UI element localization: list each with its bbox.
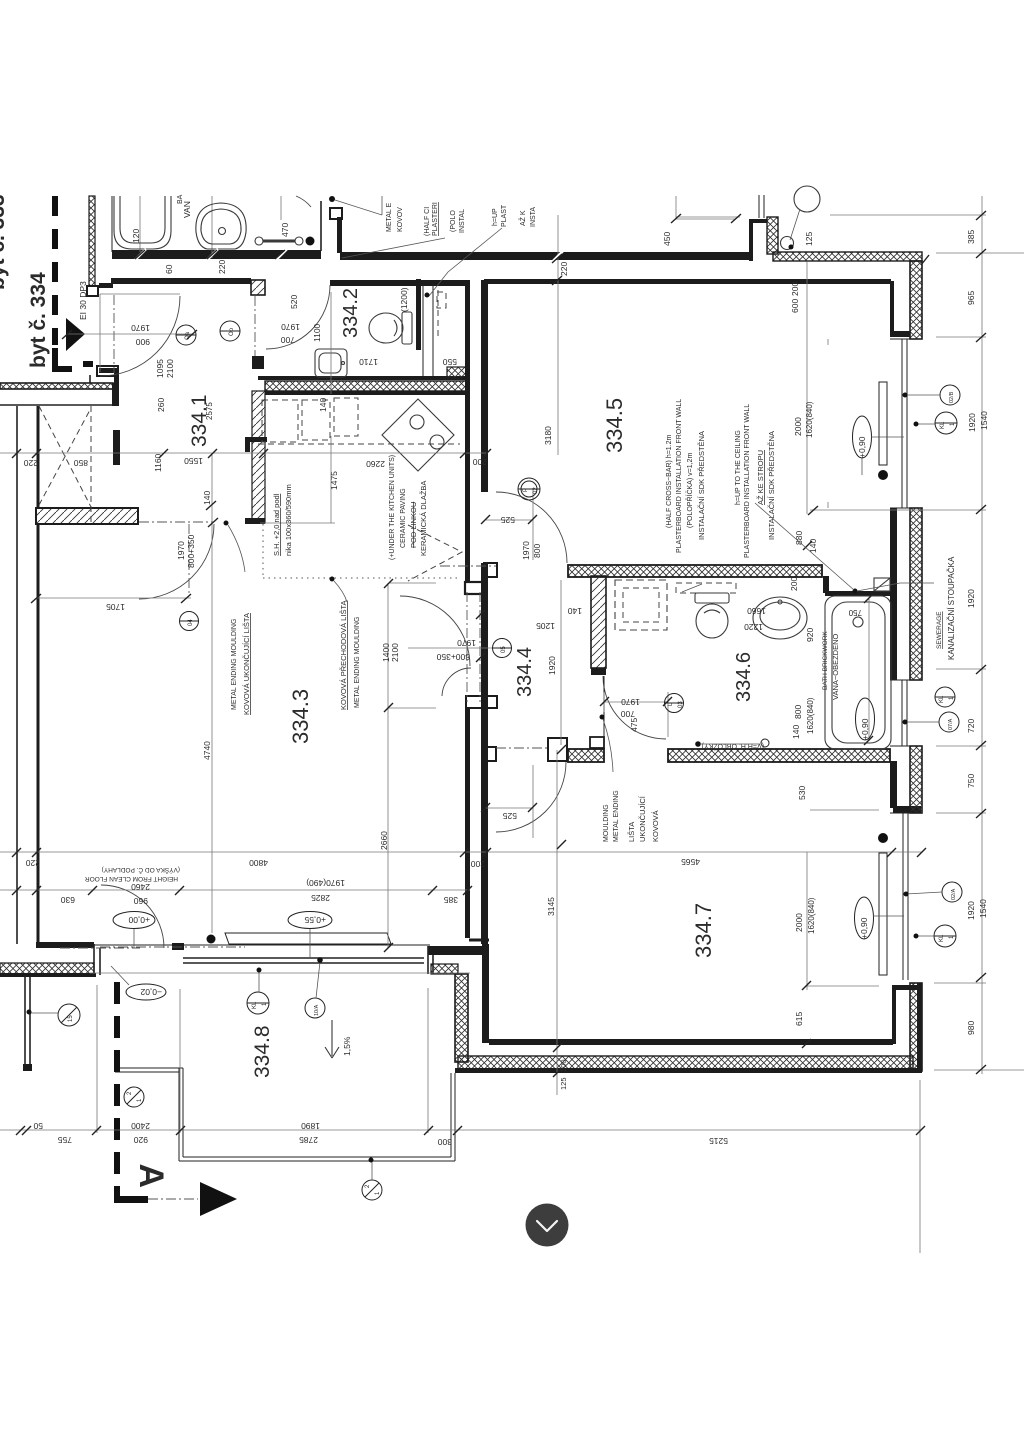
- svg-text:60: 60: [164, 264, 174, 274]
- dim chain: right vertical: [981, 196, 983, 1074]
- symbol circle 07/A bath window: [903, 712, 960, 732]
- wall: 334.2 bottom wall: [258, 376, 466, 380]
- svg-text:AŽ KE STROPU: AŽ KE STROPU: [756, 450, 765, 505]
- shaft: 334.2 instal shaft lines: [423, 284, 446, 376]
- dim line: 1705: [36, 597, 191, 599]
- fixture: kitchen fridge dashed: [302, 400, 330, 440]
- wall: balcony door frame piece: [172, 943, 184, 950]
- wall: rooms top wall 334.1 segment: [99, 278, 251, 288]
- fixture: top-right small circle fixture: [781, 237, 794, 250]
- svg-text:INSTA: INSTA: [530, 207, 537, 227]
- node: dot at moulding hall: [600, 715, 614, 773]
- svg-text:800: 800: [793, 705, 803, 719]
- svg-text:2100: 2100: [165, 359, 175, 378]
- svg-text:800: 800: [532, 544, 542, 558]
- wall: east exterior hatched band bottom corner: [910, 983, 922, 1071]
- svg-text:334.2: 334.2: [340, 288, 362, 338]
- fixture: kitchen unit dashed left: [262, 400, 298, 442]
- svg-text:1970(490): 1970(490): [306, 878, 345, 888]
- symbol circle KL/1 bath window: [935, 687, 955, 707]
- svg-text:+0,55: +0,55: [304, 915, 326, 925]
- dim line: y852 chain: [0, 851, 922, 853]
- wall: top-right exterior hatched wall horizontal: [773, 252, 922, 261]
- section line A thin dash-dot: [148, 1198, 198, 1200]
- dim ticks group 1 (top walls and chains): [135, 211, 986, 1074]
- wall: east exterior inner face 334.5/334.6: [890, 508, 897, 680]
- svg-text:615: 615: [794, 1012, 804, 1026]
- svg-text:02/B: 02/B: [949, 391, 955, 403]
- symbol circle KL/1 334.7 window: [914, 925, 957, 947]
- dim ext: hall right dims: [560, 580, 562, 745]
- svg-text:720: 720: [966, 719, 976, 733]
- fixture: 334.5 radiator: [879, 382, 887, 465]
- svg-text:1220: 1220: [744, 622, 763, 632]
- wall: top room left boundary lower part: [87, 286, 118, 376]
- svg-text:AŽ K: AŽ K: [518, 210, 527, 226]
- svg-text:1095: 1095: [155, 359, 165, 378]
- svg-text:POD LINKOU: POD LINKOU: [409, 502, 418, 548]
- svg-text:200: 200: [789, 577, 799, 591]
- door arc: 334.1 entrance from corridor: [100, 294, 180, 376]
- wall: top room bottom wall left segment: [112, 250, 321, 259]
- door arc: bathroom door: [603, 676, 666, 739]
- dim ext: x180 balcony: [179, 989, 181, 1133]
- svg-text:200: 200: [559, 1059, 568, 1072]
- wall: kitchen niche left wall hatched: [245, 391, 267, 524]
- svg-text:200: 200: [473, 457, 487, 467]
- svg-text:KERAMICKÁ DLAŽBA: KERAMICKÁ DLAŽBA: [419, 481, 428, 556]
- svg-text:125: 125: [559, 1077, 568, 1090]
- dim texts rotated group: [78, 194, 989, 1056]
- wall: 334.7 south wall inner face: [489, 1039, 893, 1045]
- svg-text:1710: 1710: [359, 357, 378, 367]
- section letter A: [132, 1163, 170, 1188]
- svg-text:334.7: 334.7: [691, 903, 716, 958]
- svg-text:(+UNDER THE KITCHEN UNITS): (+UNDER THE KITCHEN UNITS): [389, 455, 396, 560]
- svg-text:METAL ENDING MOULDING: METAL ENDING MOULDING: [231, 619, 238, 710]
- svg-text:PLASTERBOARD INSTALLATION FRON: PLASTERBOARD INSTALLATION FRONT WALL: [676, 399, 683, 553]
- wall: top-right exterior hatched wall vertical: [767, 217, 778, 254]
- fixture: bathtub: [825, 596, 891, 749]
- svg-text:2260: 2260: [366, 459, 385, 469]
- wall: top room inner left face: [111, 196, 113, 252]
- svg-text:2100: 2100: [390, 643, 400, 662]
- dim stub y983: [934, 982, 986, 984]
- node: dot near step: [329, 196, 335, 202]
- wall: east exterior hatched band middle: [910, 508, 922, 680]
- svg-text:1160: 1160: [153, 453, 163, 472]
- door leaf: staircase door black bar: [113, 430, 120, 465]
- label: byt c. 333 partial top left: [0, 194, 9, 290]
- fixture: bathroom sink: [753, 597, 807, 639]
- wall: bottom-left exterior hatched band: [0, 963, 96, 977]
- dim line: 900 door: [67, 333, 192, 335]
- fixture: towel rail top room: [255, 237, 303, 245]
- svg-text:220: 220: [217, 260, 227, 274]
- svg-text:KOVOVÁ PŘECHODOVÁ LIŠTA: KOVOVÁ PŘECHODOVÁ LIŠTA: [339, 601, 348, 710]
- svg-text:220: 220: [26, 858, 40, 868]
- dim ext: x558 334.5: [557, 215, 559, 455]
- svg-text:750: 750: [848, 608, 862, 617]
- node: dot at moulding 334.3 entry: [224, 521, 246, 573]
- svg-text:334.8: 334.8: [251, 1025, 274, 1078]
- svg-text:−0,02: −0,02: [140, 987, 162, 997]
- dim stub y253: [936, 252, 1024, 254]
- svg-text:1205: 1205: [536, 621, 555, 631]
- wall: corridor wall west line upper: [465, 280, 470, 582]
- symbol circle L/03 bathroom door: [664, 694, 684, 713]
- symbol circle 05: [492, 639, 512, 658]
- wall: corridor wall west line lower: [465, 708, 470, 938]
- svg-text:KANALIZAČNÍ STOUPAČKA: KANALIZAČNÍ STOUPAČKA: [947, 556, 956, 660]
- svg-text:880: 880: [794, 531, 804, 545]
- dim ext: x807: [806, 262, 808, 514]
- wall: 334.7 west wall: [482, 944, 489, 1043]
- entrance arrow byt 334: [66, 318, 85, 351]
- svg-text:3180: 3180: [543, 426, 553, 445]
- wall: door pier hatched between 334.1 and 334.2: [251, 280, 265, 295]
- wall: bathroom 334.6 south hatched wall right segment: [668, 749, 890, 762]
- svg-text:600: 600: [790, 299, 800, 313]
- svg-text:h=UP TO THE CEILING: h=UP TO THE CEILING: [735, 430, 742, 505]
- fixture: bathroom washing machine dashed: [615, 580, 667, 630]
- svg-text:+0,90: +0,90: [857, 436, 867, 458]
- svg-text:200: 200: [471, 859, 485, 869]
- window: balcony sliding track double line: [183, 958, 424, 963]
- svg-text:(V=H.H. OBLOŽKY): (V=H.H. OBLOŽKY): [702, 742, 764, 751]
- symbol: top-right circle partial: [790, 186, 820, 240]
- leader: plasterboard note diagonal: [755, 503, 854, 590]
- svg-text:PLAST: PLAST: [501, 204, 508, 227]
- svg-text:(POLO: (POLO: [450, 210, 457, 232]
- svg-text:HEIGHT FROM CLEAN FLOOR: HEIGHT FROM CLEAN FLOOR: [85, 875, 178, 882]
- dim line: 615 334.7: [807, 852, 879, 990]
- symbol circle 10/A balcony: [305, 957, 325, 1018]
- svg-text:(POLOPŘÍČKA) v=1,2m: (POLOPŘÍČKA) v=1,2m: [685, 453, 694, 528]
- svg-text:450: 450: [662, 232, 672, 246]
- node: dot v.h.h. oblozky: [695, 739, 769, 747]
- wall: east exterior hatched band top: [910, 261, 922, 339]
- fixture: bathroom shelf dashed: [676, 583, 736, 593]
- svg-text:07/A: 07/A: [948, 718, 954, 730]
- dim ext: x428 balcony: [427, 988, 429, 1133]
- svg-text:755: 755: [58, 1135, 72, 1145]
- svg-text:750: 750: [966, 774, 976, 788]
- svg-text:LIŠTA: LIŠTA: [627, 822, 636, 842]
- fixture: kitchen counter dashed front: [258, 443, 460, 445]
- symbol circle 0a on door dim: [176, 325, 196, 345]
- svg-text:byt č. 333: byt č. 333: [0, 194, 9, 290]
- svg-text:385: 385: [444, 895, 458, 905]
- svg-text:700: 700: [621, 709, 635, 719]
- dim line: 450 segment: [676, 218, 736, 220]
- svg-text:4800: 4800: [249, 858, 268, 868]
- wall: shaft hatched piece: [447, 367, 466, 378]
- symbol circle 2/1 balcony edge: [362, 1158, 382, 1201]
- section line A corner dash: [114, 1196, 148, 1203]
- svg-text:KL: KL: [939, 695, 945, 703]
- svg-text:1920: 1920: [966, 589, 976, 608]
- door arc: balcony side door: [101, 885, 164, 948]
- white notch ticks over top wall: [135, 249, 563, 262]
- svg-text:UKONČUJÍCÍ: UKONČUJÍCÍ: [638, 795, 647, 842]
- svg-text:1475: 1475: [329, 471, 339, 490]
- window: top-right stub window lines: [759, 195, 764, 218]
- svg-text:334.6: 334.6: [733, 652, 755, 702]
- svg-text:1970: 1970: [281, 322, 300, 332]
- wall: bathroom 334.6 south hatched wall left segment: [568, 749, 604, 762]
- svg-text:334.5: 334.5: [602, 398, 627, 453]
- wall: corridor wall east line lower: [481, 563, 488, 944]
- fixture: 334.7 radiator: [879, 853, 887, 975]
- wall: left exterior wall inner line lower: [37, 524, 40, 946]
- svg-text:2660: 2660: [379, 831, 389, 850]
- svg-text:PLASTERI: PLASTERI: [432, 202, 439, 236]
- dim ext: x212 long: [211, 453, 213, 933]
- section arrow A: [200, 1182, 237, 1216]
- shaft: dashed X cross box: [39, 406, 91, 522]
- wall: corridor wall east line upper: [481, 280, 488, 492]
- svg-text:h=UP: h=UP: [492, 208, 499, 226]
- dim ext lines top room: [140, 196, 281, 258]
- svg-text:800+350: 800+350: [186, 534, 196, 568]
- svg-text:140: 140: [568, 606, 582, 616]
- svg-text:140: 140: [791, 725, 801, 739]
- dim ext: x388 2660: [388, 583, 498, 948]
- svg-text:+0,00: +0,00: [128, 915, 150, 925]
- svg-text:INSTAL: INSTAL: [459, 209, 466, 233]
- dim line: y1130 chain: [0, 1129, 920, 1131]
- wall: bottom-left wall cap to balcony door: [36, 942, 100, 975]
- balcony low wall to neighbour: [115, 1068, 183, 1072]
- dim ext: x331 kitchen: [260, 436, 335, 523]
- node: radiator dot 334.7: [878, 833, 888, 843]
- svg-text:1970: 1970: [131, 323, 150, 333]
- svg-text:METAL ENDING MOULDING: METAL ENDING MOULDING: [354, 617, 361, 708]
- dash-dot axis at balcony left door: [60, 947, 140, 949]
- fixture: bathroom toilet: [695, 593, 729, 638]
- dim ext: x557 3145: [556, 750, 558, 1095]
- wall: thick edge below hatched band (kitchen side): [265, 391, 466, 395]
- svg-text:1540: 1540: [978, 899, 988, 918]
- node: balcony door dot: [207, 935, 216, 944]
- wall: 334.3 south face line: [94, 944, 430, 946]
- symbol circle 02/A 334.7 window: [904, 882, 963, 902]
- level mark +0.90 at 334.5 window: [853, 416, 905, 475]
- dim ticks group 2 (y453 and y852 y890 chains): [12, 330, 926, 895]
- symbol circle P/02 hall door: [518, 478, 540, 500]
- fixture: bathroom corner shelf: [874, 578, 890, 591]
- leader: half cross-bar note to wall: [342, 238, 445, 258]
- svg-text:04: 04: [188, 619, 194, 626]
- door arc: hall to 334.7: [496, 762, 566, 832]
- svg-text:965: 965: [966, 291, 976, 305]
- svg-text:1970: 1970: [521, 541, 531, 560]
- wall: east exterior inner face pier below bathroom: [890, 761, 921, 813]
- svg-text:A: A: [132, 1163, 170, 1188]
- level marks ellipses: [111, 912, 332, 1001]
- svg-text:1705: 1705: [106, 602, 125, 612]
- svg-text:220: 220: [559, 262, 569, 276]
- svg-text:02/A: 02/A: [951, 888, 957, 900]
- svg-text:1970: 1970: [176, 541, 186, 560]
- leader: metal moulding note to dot: [335, 196, 382, 215]
- wall: left exterior wall inner line upper: [37, 406, 40, 509]
- svg-text:BA: BA: [177, 194, 184, 204]
- svg-text:4565: 4565: [681, 857, 700, 867]
- svg-text:1620(840): 1620(840): [805, 401, 814, 438]
- svg-text:530: 530: [797, 786, 807, 800]
- wall: balcony slab edge line: [90, 972, 470, 974]
- wall: top-right corner wall up: [749, 219, 767, 261]
- wall: hatched band below 334.2: [265, 381, 466, 391]
- svg-text:1620(840): 1620(840): [806, 697, 815, 734]
- svg-text:+0,90: +0,90: [860, 718, 870, 740]
- dim stub y508: [810, 509, 986, 511]
- niche: dotted outline S.H.: [263, 524, 461, 578]
- wall: neighbour terrace wall below: [23, 975, 32, 1071]
- svg-text:800+350: 800+350: [436, 652, 470, 662]
- svg-text:P: P: [523, 488, 529, 492]
- symbol circle 04: [179, 612, 199, 631]
- svg-text:(1200): (1200): [399, 287, 409, 312]
- symbol circle 2/15 neighbour wall: [27, 1004, 81, 1026]
- dim line: hall 525 top: [486, 489, 533, 560]
- svg-text:475: 475: [629, 718, 639, 732]
- balcony 334.8 outline double line: [179, 1068, 455, 1161]
- wall: corner corridor to balcony wall: [469, 939, 489, 942]
- dim ext: x97 balcony: [96, 985, 98, 1133]
- dim line: bathroom door 700: [604, 692, 668, 737]
- symbol circle KL/1 balcony: [247, 968, 269, 1015]
- svg-text:KL: KL: [939, 934, 945, 942]
- svg-text:140: 140: [202, 491, 212, 505]
- svg-text:1660: 1660: [747, 606, 766, 616]
- symbol circle 2/1 on section line: [124, 1087, 144, 1107]
- wall: top room step jog: [321, 201, 342, 253]
- svg-text:MOULDING: MOULDING: [603, 804, 610, 842]
- wall: 334.2 right wall: [416, 279, 421, 350]
- dim stub y669: [936, 668, 986, 670]
- svg-text:02: 02: [533, 487, 539, 494]
- svg-text:1920: 1920: [966, 901, 976, 920]
- svg-text:Oa: Oa: [185, 331, 191, 340]
- wall: bathroom 334.6 north hatched wall: [568, 565, 822, 577]
- wall: 334.5 top wall: [484, 279, 891, 284]
- svg-text:260: 260: [156, 398, 166, 412]
- dim line: y890 chain: [0, 889, 470, 891]
- boundary corner dashes: [52, 348, 93, 372]
- leader: shaft diagonal: [425, 228, 503, 298]
- svg-text:VANA−OBEZDĚNO: VANA−OBEZDĚNO: [831, 633, 840, 700]
- svg-text:byt č. 334: byt č. 334: [27, 272, 50, 368]
- dim stub y337: [936, 336, 986, 338]
- svg-text:nika 100x360/590mm: nika 100x360/590mm: [284, 484, 293, 556]
- svg-text:KL: KL: [940, 421, 946, 429]
- door axis marks at 334.3 door: [467, 592, 480, 702]
- wall: top room left boundary wall (hatched): [89, 196, 95, 295]
- svg-text:120: 120: [131, 229, 141, 243]
- svg-text:470: 470: [280, 223, 290, 237]
- svg-text:KL: KL: [252, 1001, 258, 1009]
- window: bathroom east window glazing: [890, 680, 922, 746]
- svg-text:1540: 1540: [979, 411, 989, 430]
- svg-text:1100: 1100: [312, 323, 322, 342]
- wall: 334.5 top-right interior corner: [890, 281, 910, 337]
- svg-text:140: 140: [318, 398, 328, 412]
- svg-text:1550: 1550: [184, 456, 203, 466]
- svg-text:KOVOVÁ UKONČUJÍCÍ LIŠTA: KOVOVÁ UKONČUJÍCÍ LIŠTA: [242, 613, 251, 715]
- fixture: 334.2 toilet: [369, 312, 412, 344]
- annotation texts rotated group: [231, 202, 956, 842]
- svg-text:2460: 2460: [131, 882, 150, 892]
- svg-text:525: 525: [501, 515, 515, 525]
- svg-text:(HALF CROSS−BAR) h=1.2m: (HALF CROSS−BAR) h=1.2m: [666, 434, 673, 528]
- wall: top room bottom wall right segment: [340, 252, 751, 260]
- door leaf: balcony sliding door panel: [225, 933, 391, 944]
- wall: entry hatched pier (diagonal): [36, 508, 138, 524]
- window: 334.5 east window glazing: [890, 339, 922, 508]
- wall: bathtub niche plasterboard wall: [823, 576, 890, 596]
- svg-text:BATH BRICKWORK: BATH BRICKWORK: [822, 631, 829, 690]
- door axis: balcony area: [100, 946, 245, 948]
- door arc: flat entrance door: [139, 524, 214, 599]
- svg-text:INSTALAČNÍ SDK PŘEDSTĚNA: INSTALAČNÍ SDK PŘEDSTĚNA: [697, 431, 706, 540]
- svg-text:+0,90: +0,90: [859, 917, 869, 939]
- svg-text:920: 920: [805, 628, 815, 642]
- door arc: 334.2 wc door: [266, 285, 330, 349]
- svg-text:2000: 2000: [794, 913, 804, 932]
- dim ext line 1100: [330, 292, 332, 394]
- svg-text:385: 385: [966, 230, 976, 244]
- svg-text:S.H. +2,0 nad podl: S.H. +2,0 nad podl: [272, 493, 281, 556]
- wall: door jamb bathroom west: [590, 737, 604, 748]
- svg-text:1970: 1970: [457, 638, 476, 648]
- wall: door jamb hall-334.7: [486, 738, 567, 761]
- svg-text:900: 900: [136, 337, 150, 347]
- wall: left exterior wall outer line: [16, 406, 18, 944]
- dim stub y746: [936, 745, 986, 747]
- svg-text:980: 980: [966, 1021, 976, 1035]
- svg-text:KOVOV: KOVOV: [397, 207, 404, 232]
- wall: 334.7 south wall outer cap: [455, 1068, 921, 1073]
- svg-text:INSTALAČNÍ SDK PŘEDSTĚNA: INSTALAČNÍ SDK PŘEDSTĚNA: [767, 431, 776, 540]
- dim ext: x920 5215: [919, 1080, 921, 1253]
- fixture: kitchen unit dashed: [334, 398, 358, 436]
- wall: door jamb boxes at 334.3 door: [466, 563, 497, 708]
- svg-text:220: 220: [24, 458, 38, 468]
- wall: 334.1 left wall: [89, 375, 91, 383]
- dim line: hall 525 bottom: [486, 765, 533, 838]
- dim line: 2000 window 334.5: [827, 339, 829, 508]
- wall: bathroom 334.6 west wall hatched: [591, 576, 606, 675]
- symbol circle KL/1 334.5: [914, 412, 958, 434]
- wall: balcony corner wall of 334.7: [428, 946, 489, 974]
- node: junction dot top room: [306, 237, 315, 246]
- symbol circle 02/B window 334.5: [903, 385, 961, 405]
- svg-text:200: 200: [790, 282, 800, 296]
- svg-text:520: 520: [289, 295, 299, 309]
- svg-text:(VÝŠKA OD Č. PODLAHY): (VÝŠKA OD Č. PODLAHY): [102, 866, 180, 875]
- room number labels: [188, 288, 755, 1078]
- svg-text:550: 550: [443, 357, 457, 367]
- level mark +0.90 at 334.7 window: [855, 897, 905, 939]
- svg-text:850: 850: [74, 458, 88, 468]
- svg-text:METAL E: METAL E: [386, 202, 393, 232]
- wall: 334.7 east window sill cap: [892, 983, 922, 1073]
- svg-text:50: 50: [33, 1121, 43, 1131]
- dim texts upside-down group: [24, 322, 862, 1147]
